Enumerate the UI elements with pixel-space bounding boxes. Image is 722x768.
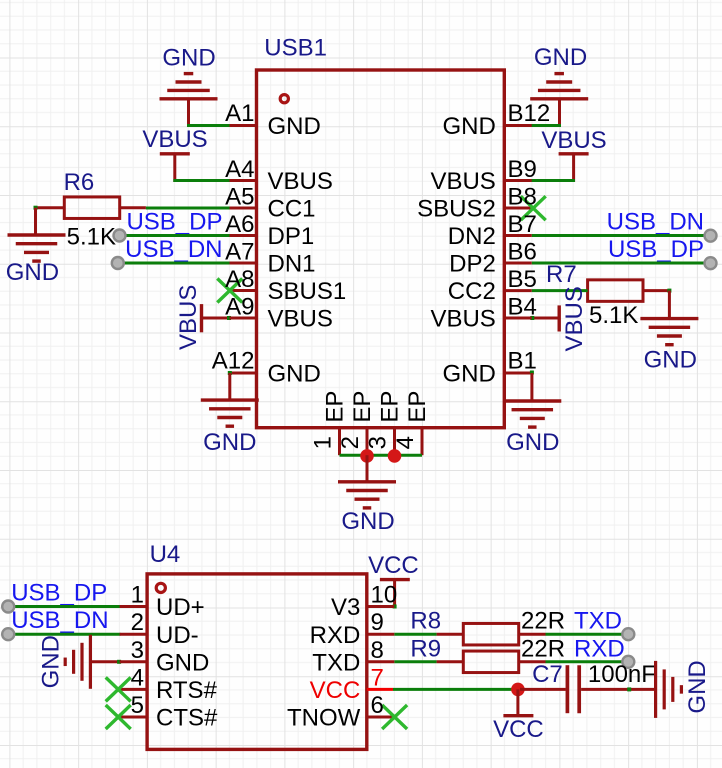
- junction dot EP pin3: [388, 449, 402, 463]
- svg-text:CC1: CC1: [268, 196, 316, 223]
- wire USB_DN to pin 2: [10, 633, 121, 636]
- C7 right lead to ground: [581, 688, 654, 691]
- unconnected end right USB_DP: [705, 257, 717, 269]
- pin B6: [504, 262, 531, 265]
- svg-text:GND: GND: [156, 650, 209, 677]
- svg-text:3: 3: [131, 637, 144, 664]
- pin 1 U4: [120, 605, 148, 608]
- svg-text:VBUS: VBUS: [268, 168, 333, 195]
- svg-text:8: 8: [371, 637, 384, 664]
- svg-text:22R: 22R: [521, 608, 565, 635]
- wire USB_DP to pin A6: [120, 234, 230, 237]
- no-connect X at A8: [217, 279, 242, 303]
- svg-text:4: 4: [392, 436, 419, 449]
- pin A4: [230, 179, 257, 182]
- pin A9: [230, 317, 257, 320]
- svg-text:100nF: 100nF: [588, 661, 656, 688]
- svg-text:SBUS2: SBUS2: [417, 196, 496, 223]
- svg-text:SBUS1: SBUS1: [268, 278, 347, 305]
- svg-text:VBUS: VBUS: [430, 168, 495, 195]
- svg-text:6: 6: [371, 692, 384, 719]
- svg-text:GND: GND: [442, 113, 495, 140]
- ground stem pin 3: [90, 660, 119, 663]
- wire VCC junction to C7: [520, 688, 566, 691]
- pin B1: [504, 372, 531, 375]
- VBUS stem B4: [534, 317, 559, 320]
- pin 3 U4: [120, 660, 148, 663]
- R7 right lead: [643, 289, 669, 292]
- svg-text:22R: 22R: [521, 635, 565, 662]
- svg-text:R7: R7: [546, 261, 577, 288]
- svg-text:B5: B5: [508, 266, 537, 293]
- pin 5 U4: [120, 716, 148, 719]
- svg-text:CTS#: CTS#: [156, 705, 218, 732]
- svg-text:B4: B4: [508, 294, 537, 321]
- pin 6 U4: [367, 716, 395, 719]
- R6 left lead: [36, 206, 65, 209]
- wire pin 7 VCC net: [393, 688, 518, 691]
- svg-text:VBUS: VBUS: [561, 286, 588, 351]
- wire pin B5 to R7: [532, 289, 588, 292]
- svg-text:CC2: CC2: [448, 278, 496, 305]
- svg-text:EP: EP: [404, 391, 431, 423]
- pin 2 (EP) stub: [366, 428, 369, 456]
- svg-text:VBUS: VBUS: [142, 126, 207, 153]
- svg-text:GND: GND: [644, 347, 697, 374]
- pin 8 U4: [367, 660, 395, 663]
- svg-text:UD+: UD+: [156, 594, 205, 621]
- pin A5: [230, 207, 257, 210]
- svg-text:A6: A6: [225, 211, 254, 238]
- pin 9 U4: [367, 633, 395, 636]
- wire B1 to ground: [530, 373, 533, 401]
- svg-text:GND: GND: [341, 508, 394, 535]
- svg-text:A9: A9: [225, 294, 254, 321]
- svg-text:VCC: VCC: [368, 552, 419, 579]
- pin A12: [230, 372, 257, 375]
- svg-text:GND: GND: [534, 44, 587, 71]
- pin 10 U4: [367, 605, 395, 608]
- VCC stem pin10: [393, 580, 396, 607]
- svg-text:DP2: DP2: [449, 251, 496, 278]
- VBUS stem A4: [173, 154, 176, 182]
- wire R7 to ground: [668, 291, 671, 319]
- svg-text:VBUS: VBUS: [541, 127, 606, 154]
- svg-text:GND: GND: [268, 361, 321, 388]
- svg-text:GND: GND: [162, 45, 215, 72]
- pin 7 U4 highlighted: [367, 688, 393, 691]
- pin A6: [230, 234, 257, 237]
- svg-text:C7: C7: [532, 661, 563, 688]
- wire pin B12 to ground: [531, 124, 562, 127]
- capacitor C7 right plate: [577, 665, 581, 713]
- wire pin B6 to USB_DP: [532, 262, 708, 265]
- svg-text:10: 10: [371, 582, 398, 609]
- svg-text:RXD: RXD: [310, 622, 361, 649]
- pin 4 U4: [120, 688, 148, 691]
- svg-text:9: 9: [371, 609, 384, 636]
- no-connect X at pin 6: [382, 705, 407, 729]
- wire A12 to ground: [228, 373, 231, 400]
- svg-text:B9: B9: [508, 156, 537, 183]
- VBUS stem A9: [202, 317, 230, 320]
- power flag GND (top left): [162, 45, 215, 72]
- svg-text:B12: B12: [508, 100, 551, 127]
- ground symbol below EP: [338, 482, 396, 508]
- svg-text:GND: GND: [38, 635, 65, 688]
- pin B9: [504, 179, 531, 182]
- capacitor C7 left plate: [566, 665, 570, 713]
- svg-text:R9: R9: [410, 635, 441, 662]
- pin A8: [230, 289, 257, 292]
- R9 right lead: [519, 660, 546, 663]
- junction dot EP pin2: [360, 449, 374, 463]
- svg-text:USB_DN: USB_DN: [607, 208, 704, 235]
- resistor R7 body: [588, 280, 643, 302]
- svg-text:3: 3: [365, 436, 392, 449]
- svg-text:7: 7: [371, 664, 384, 691]
- VBUS stem B9: [572, 154, 575, 182]
- VBUS bar A9: [200, 304, 203, 332]
- VCC bar pin10: [380, 578, 410, 581]
- wire pin B9 to VBUS: [531, 179, 576, 182]
- svg-text:GND: GND: [203, 429, 256, 456]
- svg-text:B8: B8: [508, 184, 537, 211]
- wire R9 to RXD end: [546, 660, 627, 663]
- svg-text:5.1K: 5.1K: [589, 302, 638, 329]
- no-connect X at pin 4: [106, 677, 131, 701]
- ground stem A1: [187, 99, 190, 126]
- VBUS bar B9: [559, 152, 589, 155]
- svg-text:RTS#: RTS#: [156, 677, 218, 704]
- svg-text:USB_DP: USB_DP: [126, 208, 222, 235]
- svg-text:A1: A1: [225, 100, 254, 127]
- svg-text:1: 1: [131, 582, 144, 609]
- svg-text:GND: GND: [506, 429, 559, 456]
- svg-text:2: 2: [131, 609, 144, 636]
- ground symbol below B1: [503, 401, 561, 427]
- unconnected end USB_DP U4: [2, 601, 14, 613]
- ground symbol below A12: [201, 400, 259, 426]
- svg-text:DP1: DP1: [268, 223, 315, 250]
- R8 left lead: [437, 633, 464, 636]
- unconnected end right USB_DN: [705, 230, 717, 242]
- ground symbol left of pin 3: [65, 635, 90, 689]
- svg-text:B1: B1: [508, 348, 537, 375]
- VBUS bar A4: [160, 152, 190, 155]
- wire VBUS to pin A4: [173, 179, 230, 182]
- wire R6 to ground: [34, 206, 38, 210]
- pin B4: [504, 317, 531, 320]
- junction dot VCC: [511, 683, 525, 697]
- pin A1: [230, 124, 257, 127]
- svg-text:2: 2: [337, 436, 364, 449]
- pin 2 U4: [120, 633, 148, 636]
- svg-text:USB_DP: USB_DP: [11, 579, 107, 606]
- wire R8 to TXD end: [546, 633, 627, 636]
- pin B8: [504, 207, 531, 210]
- svg-text:DN2: DN2: [448, 223, 496, 250]
- svg-text:B6: B6: [508, 239, 537, 266]
- USB1 pin 1 indicator circle: [280, 95, 288, 103]
- svg-text:R6: R6: [64, 169, 95, 196]
- ground symbol above pin B12: [530, 74, 588, 99]
- stem VCC flag below: [516, 689, 519, 715]
- pin B12: [504, 124, 531, 127]
- R8 right lead: [519, 633, 546, 636]
- svg-text:USB_DN: USB_DN: [11, 607, 108, 634]
- pin A7: [230, 262, 257, 265]
- wire EP to ground: [366, 455, 369, 482]
- VCC bar below: [503, 714, 533, 717]
- pin B7: [504, 234, 531, 237]
- svg-text:VBUS: VBUS: [175, 285, 202, 350]
- unconnected end USB_DN: [112, 257, 124, 269]
- svg-text:USB1: USB1: [264, 35, 327, 62]
- svg-text:VCC: VCC: [310, 677, 361, 704]
- svg-text:TNOW: TNOW: [287, 705, 361, 732]
- wire pin 9 to R8: [394, 633, 436, 636]
- unconnected end USB_DP: [114, 230, 126, 242]
- pin 1 (EP) stub: [338, 428, 341, 456]
- svg-text:VCC: VCC: [493, 716, 544, 743]
- svg-text:A5: A5: [225, 184, 254, 211]
- ground symbol above pin A1: [160, 74, 218, 99]
- svg-text:GND: GND: [6, 259, 59, 286]
- svg-text:USB_DP: USB_DP: [608, 236, 704, 263]
- svg-text:A4: A4: [225, 156, 254, 183]
- U4 pin 1 indicator circle: [156, 583, 165, 592]
- ground symbol below R6: [8, 235, 66, 261]
- ground symbol below R7: [640, 319, 698, 345]
- wire USB_DP to pin 1: [10, 605, 121, 608]
- wire pin 8 to R9: [394, 660, 436, 663]
- IC U4 body: [147, 574, 367, 750]
- svg-text:B7: B7: [508, 211, 537, 238]
- svg-text:4: 4: [131, 664, 144, 691]
- wire GND to pin A1: [187, 124, 230, 127]
- connector USB1 body: [257, 70, 505, 428]
- resistor R9 body: [463, 651, 518, 673]
- svg-text:TXD: TXD: [312, 650, 360, 677]
- svg-text:VBUS: VBUS: [268, 306, 333, 333]
- unconnected end RXD: [622, 656, 634, 668]
- svg-text:A8: A8: [225, 266, 254, 293]
- pin 4 (EP) stub: [421, 428, 424, 456]
- svg-text:VBUS: VBUS: [430, 306, 495, 333]
- svg-text:V3: V3: [331, 594, 360, 621]
- R9 left lead: [437, 660, 464, 663]
- wire joining EP pins: [340, 454, 423, 457]
- svg-text:EP: EP: [349, 391, 376, 423]
- svg-text:GND: GND: [684, 660, 711, 713]
- svg-text:EP: EP: [322, 391, 349, 423]
- wire USB_DN to pin A7: [118, 262, 230, 265]
- svg-text:GND: GND: [268, 113, 321, 140]
- svg-text:EP: EP: [377, 391, 404, 423]
- resistor R8 body: [463, 623, 518, 645]
- svg-text:5: 5: [131, 692, 144, 719]
- svg-text:GND: GND: [442, 361, 495, 388]
- wire pin B7 to USB_DN: [532, 234, 708, 237]
- svg-text:RXD: RXD: [574, 635, 625, 662]
- ground symbol right of C7: [656, 661, 682, 718]
- svg-text:TXD: TXD: [574, 608, 622, 635]
- svg-text:R8: R8: [410, 608, 441, 635]
- svg-text:5.1K: 5.1K: [67, 224, 116, 251]
- no-connect X at B8: [521, 196, 546, 220]
- VBUS bar B4: [558, 305, 561, 331]
- svg-text:A12: A12: [212, 348, 255, 375]
- unconnected end TXD: [622, 628, 634, 640]
- svg-text:USB_DN: USB_DN: [125, 236, 222, 263]
- pin 3 (EP) stub: [393, 428, 396, 456]
- svg-text:UD-: UD-: [156, 622, 199, 649]
- svg-text:DN1: DN1: [268, 251, 316, 278]
- resistor R6 body: [64, 197, 119, 219]
- R6 right lead: [120, 206, 146, 209]
- svg-text:U4: U4: [150, 541, 181, 568]
- svg-text:1: 1: [310, 436, 337, 449]
- unconnected end USB_DN U4: [2, 628, 14, 640]
- no-connect X at pin 5: [106, 705, 131, 729]
- ground stem B12: [558, 99, 561, 126]
- svg-text:A7: A7: [225, 239, 254, 266]
- pin B5: [504, 289, 531, 292]
- wire R6 to pin A5: [146, 207, 230, 210]
